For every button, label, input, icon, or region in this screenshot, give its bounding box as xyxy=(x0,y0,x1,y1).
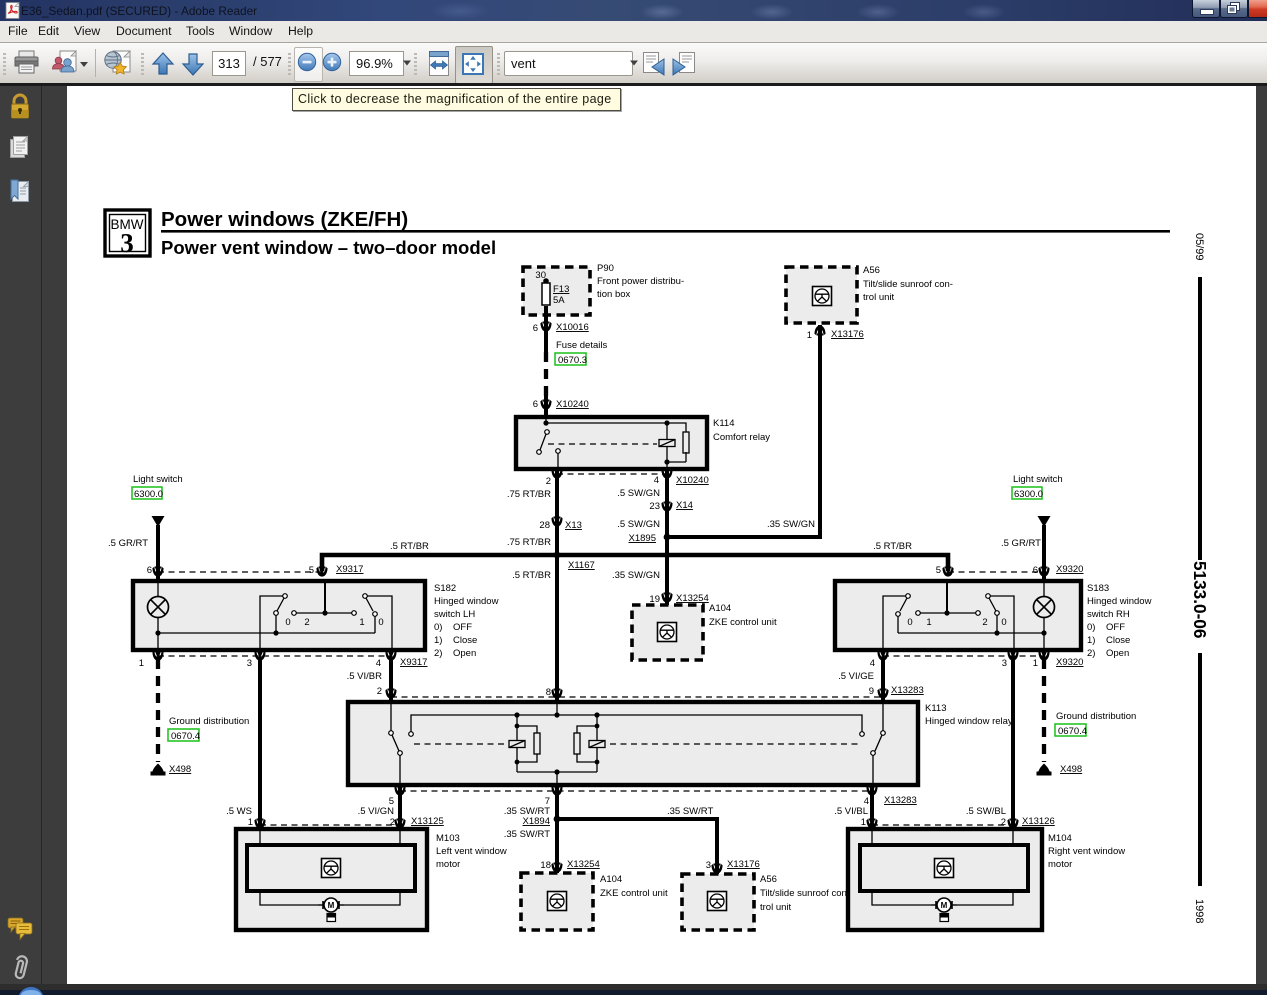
connector K113 pin7 xyxy=(551,786,562,796)
M104 motor xyxy=(931,898,957,912)
svg-text:05/99: 05/99 xyxy=(1193,233,1205,261)
svg-text:X13176: X13176 xyxy=(831,329,864,340)
svg-text:Open: Open xyxy=(1106,648,1129,659)
svg-text:1): 1) xyxy=(434,635,442,646)
comments icon xyxy=(7,917,33,941)
Adobe Reader app icon xyxy=(5,2,23,20)
ECU icon A104 middle xyxy=(658,623,677,642)
svg-text:1: 1 xyxy=(861,817,866,828)
connector M104 pin1 xyxy=(866,819,877,829)
svg-text:Light switch: Light switch xyxy=(133,474,183,485)
svg-text:.35 SW/RT: .35 SW/RT xyxy=(504,829,550,840)
wire: X10016 to X10240 (dashed run) xyxy=(544,331,548,352)
find previous xyxy=(642,51,666,77)
svg-text:6300.0: 6300.0 xyxy=(134,489,163,500)
start orb sliver xyxy=(16,986,48,995)
svg-text:ZKE control unit: ZKE control unit xyxy=(600,888,668,899)
svg-text:Power vent window – two–door m: Power vent window – two–door model xyxy=(161,237,496,258)
page up arrow xyxy=(150,51,176,77)
S183 switch arm right xyxy=(986,594,991,599)
svg-text:ZKE control unit: ZKE control unit xyxy=(709,617,777,628)
connector row X13125 xyxy=(260,824,400,826)
svg-text:Hinged window relay: Hinged window relay xyxy=(925,716,1013,727)
svg-text:Close: Close xyxy=(453,635,477,646)
svg-text:X1895: X1895 xyxy=(629,533,656,544)
wire: light switch feed to S182 pin6 xyxy=(156,525,160,581)
svg-text:5133.0-06: 5133.0-06 xyxy=(1190,561,1210,638)
svg-text:19: 19 xyxy=(649,594,660,605)
K114 relay coil xyxy=(659,440,675,447)
fuse F13 xyxy=(542,283,550,305)
svg-text:F13: F13 xyxy=(553,284,569,295)
connector S182 pin3 xyxy=(254,651,265,661)
svg-text:Fuse details: Fuse details xyxy=(556,340,607,351)
svg-text:.5 WS: .5 WS xyxy=(226,806,252,817)
BMW 3 logo xyxy=(105,210,150,258)
svg-text:X13125: X13125 xyxy=(411,816,444,827)
svg-text:0670.4: 0670.4 xyxy=(171,731,200,742)
svg-text:5A: 5A xyxy=(553,295,565,306)
connector K113 pin9 xyxy=(877,689,888,699)
wire: S183 pin1 to ground X498 (dashed) xyxy=(1042,659,1046,762)
svg-text:.5 VI/BR: .5 VI/BR xyxy=(347,671,383,682)
svg-text:.5 SW/GN: .5 SW/GN xyxy=(617,488,660,499)
connector M103 pin1 xyxy=(254,819,265,829)
svg-text:2: 2 xyxy=(390,817,395,828)
ECU icon A56 bottom xyxy=(708,892,727,911)
connector X13176 upper (flipped) xyxy=(814,325,825,335)
connector S182 pin6 xyxy=(152,567,163,577)
M104 motor loop xyxy=(872,891,931,905)
svg-text:5: 5 xyxy=(309,565,314,576)
svg-text:1: 1 xyxy=(807,330,812,341)
svg-text:0: 0 xyxy=(378,617,383,628)
svg-text:X13283: X13283 xyxy=(884,795,917,806)
junction X1894 xyxy=(554,816,561,823)
S182 lamp junction xyxy=(155,630,160,635)
printer icon xyxy=(13,50,41,77)
svg-text:1: 1 xyxy=(926,617,931,628)
wire: X1895 down to A104 pin19 xyxy=(665,537,669,605)
svg-text:Comfort relay: Comfort relay xyxy=(713,432,770,443)
svg-text:OFF: OFF xyxy=(453,622,472,633)
svg-text:.35 SW/RT: .35 SW/RT xyxy=(667,806,713,817)
S183 contact rail xyxy=(916,611,921,616)
svg-text:.5 VI/GE: .5 VI/GE xyxy=(838,671,874,682)
svg-text:X9320: X9320 xyxy=(1056,564,1083,575)
svg-text:K113: K113 xyxy=(925,703,946,714)
svg-text:0): 0) xyxy=(434,622,442,633)
wire: S182 pin3 to M103 pin1 xyxy=(258,659,262,829)
K113 coil bottom rail xyxy=(517,771,597,773)
bookmarks icon xyxy=(9,179,31,205)
title rule xyxy=(161,230,1170,233)
paperclip icon xyxy=(8,955,32,983)
connector K113 pin2 xyxy=(385,689,396,699)
S182 lamp xyxy=(148,597,169,618)
svg-text:1: 1 xyxy=(139,658,144,669)
zoom percent box xyxy=(349,51,404,76)
main bus .5 RT/BR xyxy=(322,555,948,571)
svg-text:X10240: X10240 xyxy=(556,399,589,410)
wire: K114 pin4 down to X1895 xyxy=(665,469,669,537)
svg-text:.35 SW/GN: .35 SW/GN xyxy=(612,570,660,581)
svg-text:X10240: X10240 xyxy=(676,475,709,486)
connector X10240 upper xyxy=(540,400,551,410)
wire: K113 pin4 to M104 pin1 xyxy=(870,785,874,829)
svg-text:P90: P90 xyxy=(597,263,614,274)
connector X10016 xyxy=(540,322,551,332)
svg-text:9: 9 xyxy=(869,686,874,697)
connector S183 pin3 xyxy=(1007,651,1018,661)
svg-text:3: 3 xyxy=(1002,658,1007,669)
M103 motor xyxy=(318,898,344,912)
svg-text:Tilt/slide sunroof con-: Tilt/slide sunroof con- xyxy=(760,888,850,899)
connector row X9320 bottom xyxy=(883,655,1044,657)
right margin rule upper xyxy=(1198,277,1202,560)
svg-text:2: 2 xyxy=(377,686,382,697)
svg-text:0: 0 xyxy=(285,617,290,628)
M104 ECU icon xyxy=(935,859,954,878)
fuse box P90 xyxy=(523,267,590,315)
svg-text:motor: motor xyxy=(436,859,460,870)
svg-text:3: 3 xyxy=(120,228,134,258)
svg-text:3: 3 xyxy=(247,658,252,669)
connector X13254 lower xyxy=(551,863,562,873)
control unit A56 (top) xyxy=(786,267,857,323)
svg-text:.5 GR/RT: .5 GR/RT xyxy=(108,538,148,549)
svg-text:K114: K114 xyxy=(713,418,734,429)
svg-text:A56: A56 xyxy=(760,874,777,885)
page down arrow xyxy=(180,51,206,77)
toolbar xyxy=(0,43,1267,83)
wire: X1895 to A56 pin1 xyxy=(667,325,820,537)
wire: S183 pin3 to M104 pin2 xyxy=(1011,659,1015,829)
connector row X13126 xyxy=(872,824,1013,826)
maximize/restore button xyxy=(1220,0,1248,18)
K114 resistor xyxy=(683,432,689,453)
right vent window motor M104 box xyxy=(848,829,1042,930)
wire: X1894 branch to A56 pin3 xyxy=(557,819,717,874)
connector row K113 bottom xyxy=(400,790,872,792)
svg-text:X13176: X13176 xyxy=(727,859,760,870)
svg-text:X498: X498 xyxy=(169,764,191,775)
svg-text:0: 0 xyxy=(907,617,912,628)
S183 switch arm left xyxy=(906,594,911,599)
pages icon xyxy=(9,135,31,161)
svg-text:OFF: OFF xyxy=(1106,622,1125,633)
connector X10240 pin2 xyxy=(551,469,562,479)
collaborate icon + dropdown xyxy=(50,50,88,78)
svg-text:0): 0) xyxy=(1087,622,1095,633)
S183 lamp xyxy=(1034,597,1055,618)
K113 control rail xyxy=(411,715,862,732)
svg-text:tion box: tion box xyxy=(597,289,631,300)
svg-text:18: 18 xyxy=(540,860,551,871)
S182 switch arm left xyxy=(283,594,288,599)
svg-text:0670.4: 0670.4 xyxy=(1058,726,1087,737)
svg-text:Ground distribution: Ground distribution xyxy=(1056,711,1136,722)
svg-text:trol unit: trol unit xyxy=(863,292,895,303)
S182 contact rail xyxy=(292,611,297,616)
svg-text:X14: X14 xyxy=(676,500,693,511)
wire: S183 pin4 to K113 pin9 xyxy=(881,659,885,702)
connector S183 pin4 xyxy=(877,651,888,661)
svg-text:Close: Close xyxy=(1106,635,1130,646)
right margin rule lower xyxy=(1198,653,1202,886)
svg-text:1998: 1998 xyxy=(1193,899,1205,923)
svg-text:0: 0 xyxy=(1001,617,1006,628)
svg-text:X9317: X9317 xyxy=(400,657,427,668)
svg-text:X13126: X13126 xyxy=(1022,816,1055,827)
M103 ECU icon xyxy=(322,859,341,878)
svg-text:30: 30 xyxy=(535,270,546,281)
connector M104 pin2 / X13126 xyxy=(1007,819,1018,829)
svg-text:23: 23 xyxy=(649,501,660,512)
svg-text:motor: motor xyxy=(1048,859,1072,870)
svg-text:Hinged window: Hinged window xyxy=(434,596,499,607)
svg-text:4: 4 xyxy=(376,658,381,669)
menu bar xyxy=(0,21,1267,43)
crossref 0670.3 xyxy=(555,353,586,365)
svg-text:X498: X498 xyxy=(1060,764,1082,775)
svg-text:X13254: X13254 xyxy=(676,593,709,604)
svg-text:5: 5 xyxy=(936,565,941,576)
zoom out button (hovered) xyxy=(294,47,323,82)
junction X1895 xyxy=(664,534,671,541)
svg-text:2): 2) xyxy=(434,648,442,659)
fit width icon xyxy=(426,50,452,78)
junction X1167 xyxy=(554,552,561,559)
connector X14 xyxy=(661,502,672,512)
wire: K113 pin7 to X1894 to A104 pin18 xyxy=(555,785,559,873)
wire: S182 pin1 to ground X498 (dashed) xyxy=(156,659,160,762)
svg-text:2: 2 xyxy=(982,617,987,628)
svg-text:6: 6 xyxy=(533,323,538,334)
left vent window motor M103 box xyxy=(236,829,427,930)
close button (cropped) xyxy=(1248,0,1267,18)
svg-text:4: 4 xyxy=(654,475,659,486)
svg-text:.5 RT/BR: .5 RT/BR xyxy=(512,570,551,581)
connector K113 pin5 xyxy=(394,786,405,796)
svg-text:.5 SW/BL: .5 SW/BL xyxy=(966,806,1006,817)
svg-text:Light switch: Light switch xyxy=(1013,474,1063,485)
find next xyxy=(671,51,697,77)
connector K113 pin8 xyxy=(551,689,562,699)
svg-text:8: 8 xyxy=(546,687,551,698)
svg-text:A104: A104 xyxy=(709,603,731,614)
connector S183 pin6 xyxy=(1038,567,1049,577)
connector X13176 lower xyxy=(711,864,722,874)
start orb sliver xyxy=(17,987,45,989)
ZKE control unit A104 (middle) xyxy=(632,605,703,660)
K114 dashed actuation line xyxy=(548,443,657,445)
connector row K113 top xyxy=(391,696,883,698)
svg-text:Hinged window: Hinged window xyxy=(1087,596,1152,607)
svg-text:X10016: X10016 xyxy=(556,322,589,333)
connector M103 pin2 / X13125 xyxy=(394,819,405,829)
connector X13254 upper xyxy=(661,593,672,603)
lock icon xyxy=(9,93,31,121)
node 30 dot xyxy=(543,278,549,284)
connector S182 pin4 xyxy=(385,651,396,661)
svg-text:6: 6 xyxy=(147,565,152,576)
connector row X9317 bottom xyxy=(158,655,391,657)
M103 thermal breaker xyxy=(327,914,336,922)
K113 pin8 drop xyxy=(556,702,558,715)
wire: S182 pin4 to K113 pin2 xyxy=(389,659,393,702)
comfort relay K114 box xyxy=(516,417,707,469)
connector X13 xyxy=(551,517,562,527)
page number box xyxy=(212,51,246,76)
M104 thermal breaker xyxy=(940,914,949,922)
svg-text:switch LH: switch LH xyxy=(434,609,475,620)
svg-text:M103: M103 xyxy=(436,833,460,844)
svg-text:0670.3: 0670.3 xyxy=(558,355,587,366)
svg-text:1: 1 xyxy=(248,817,253,828)
connector S183 pin1 xyxy=(1038,651,1049,661)
svg-text:1): 1) xyxy=(1087,635,1095,646)
connector row X10240 below K114 xyxy=(557,473,667,475)
wire: X1167 down to K113 pin8 xyxy=(555,555,559,702)
wire: battery feed F13 to X10016 xyxy=(544,315,548,330)
K113 pin2 switch xyxy=(390,702,392,731)
wire: K114 pin2 down to X1167 xyxy=(555,469,559,555)
svg-text:1: 1 xyxy=(359,617,364,628)
svg-text:X9317: X9317 xyxy=(336,564,363,575)
svg-text:X1167: X1167 xyxy=(568,560,595,571)
fit page button (active) xyxy=(455,46,493,84)
svg-text:.5 SW/GN: .5 SW/GN xyxy=(617,519,660,530)
svg-text:6: 6 xyxy=(1033,565,1038,576)
svg-text:Open: Open xyxy=(453,648,476,659)
svg-text:.75 RT/BR: .75 RT/BR xyxy=(507,489,551,500)
svg-text:.5 GR/RT: .5 GR/RT xyxy=(1001,538,1041,549)
K113 dashed actuation line xyxy=(414,743,506,745)
minimize button xyxy=(1192,0,1220,18)
K114 feed line xyxy=(545,417,547,423)
ECU icon A104 bottom xyxy=(548,892,567,911)
connector S182 pin1 xyxy=(152,651,163,661)
svg-text:.5 VI/GN: .5 VI/GN xyxy=(358,806,395,817)
svg-text:.75 RT/BR: .75 RT/BR xyxy=(507,537,551,548)
svg-text:S183: S183 xyxy=(1087,583,1109,594)
svg-text:3: 3 xyxy=(706,860,711,871)
connector row X9317 top xyxy=(158,571,322,573)
ZKE control unit A104 (bottom) xyxy=(521,873,593,930)
svg-text:M104: M104 xyxy=(1048,833,1072,844)
svg-text:1: 1 xyxy=(1033,658,1038,669)
M104 inner frame xyxy=(860,845,1028,891)
svg-text:6300.0: 6300.0 xyxy=(1014,489,1043,500)
K114 switch xyxy=(545,430,550,435)
svg-text:.5 RT/BR: .5 RT/BR xyxy=(873,541,912,552)
svg-text:2: 2 xyxy=(304,617,309,628)
connector S182 pin5 xyxy=(316,567,327,577)
triangle: power feed left xyxy=(152,516,165,527)
connector S183 pin5 xyxy=(942,567,953,577)
svg-text:2): 2) xyxy=(1087,648,1095,659)
M103 inner frame xyxy=(247,845,415,891)
svg-text:.5 VI/BL: .5 VI/BL xyxy=(834,806,868,817)
svg-text:X1894: X1894 xyxy=(523,816,550,827)
ground X498 right xyxy=(1037,764,1052,776)
svg-text:A56: A56 xyxy=(863,265,880,276)
connector row X9320 top xyxy=(948,571,1044,573)
svg-text:2: 2 xyxy=(1001,817,1006,828)
K113 left relay xyxy=(516,715,518,741)
svg-text:switch RH: switch RH xyxy=(1087,609,1130,620)
web/email icon xyxy=(103,49,133,79)
svg-text:Left vent window: Left vent window xyxy=(436,846,507,857)
svg-text:2: 2 xyxy=(546,476,551,487)
M103 motor loop xyxy=(260,891,318,905)
svg-text:6: 6 xyxy=(533,399,538,410)
svg-text:Front power distribu-: Front power distribu- xyxy=(597,276,684,287)
svg-text:Ground distribution: Ground distribution xyxy=(169,716,249,727)
svg-text:X13283: X13283 xyxy=(891,685,924,696)
wire: K113 pin5 to M103 pin2 xyxy=(398,785,402,829)
navigation sidebar xyxy=(0,86,42,984)
svg-text:28: 28 xyxy=(539,520,550,531)
svg-text:X13254: X13254 xyxy=(567,859,600,870)
sunroof control unit A56 (bottom) xyxy=(682,874,754,930)
K113 right relay xyxy=(596,715,598,741)
triangle: power feed right xyxy=(1038,516,1051,527)
K113 pin9 switch xyxy=(882,702,884,731)
window title bar xyxy=(0,0,1267,21)
svg-text:Power windows (ZKE/FH): Power windows (ZKE/FH) xyxy=(161,208,408,231)
svg-text:A104: A104 xyxy=(600,874,622,885)
svg-text:S182: S182 xyxy=(434,583,456,594)
connector K113 pin4 xyxy=(866,786,877,796)
S182 switch arm right xyxy=(363,594,368,599)
svg-text:X13: X13 xyxy=(565,520,582,531)
svg-text:.5 RT/BR: .5 RT/BR xyxy=(390,541,429,552)
svg-text:4: 4 xyxy=(870,658,875,669)
wire: light switch feed to S183 pin6 xyxy=(1042,525,1046,581)
ground X498 left xyxy=(151,764,166,776)
connector X10240 pin4 xyxy=(661,469,672,479)
hinged window relay K113 box xyxy=(348,702,918,785)
zoom in xyxy=(321,51,343,73)
search box xyxy=(504,51,633,76)
svg-text:X9320: X9320 xyxy=(1056,657,1083,668)
svg-text:trol unit: trol unit xyxy=(760,902,792,913)
svg-text:.35 SW/GN: .35 SW/GN xyxy=(767,519,815,530)
svg-text:Right vent window: Right vent window xyxy=(1048,846,1125,857)
svg-text:Tilt/slide sunroof con-: Tilt/slide sunroof con- xyxy=(863,279,953,290)
hinged window switch S182 box xyxy=(133,581,425,650)
hinged window switch S183 box xyxy=(835,581,1081,650)
ECU icon A56 top xyxy=(813,287,832,306)
